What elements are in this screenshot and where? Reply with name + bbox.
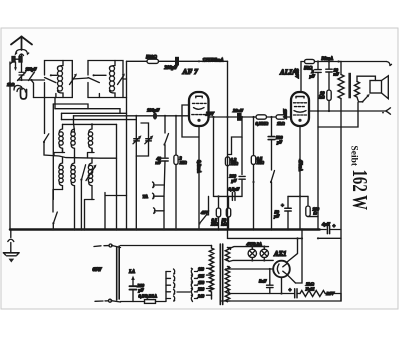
tuned circuit box 1: [45, 61, 73, 98]
SECTION: boxes: [45, 61, 127, 98]
bus junction dots: [52, 228, 54, 230]
wire long vertical x126.5: [126, 61, 128, 116]
svg-text:5nF: 5nF: [259, 279, 267, 284]
wire lamp rail top: [231, 247, 269, 248]
svg-text:AF 7: AF 7: [182, 67, 199, 76]
wire cathode bias tap: [288, 195, 308, 197]
wire top rail left segment: [127, 60, 147, 62]
trimmer arrow box2: [118, 75, 125, 85]
wire y124.4: [63, 123, 117, 125]
SECTION: midline: [74, 108, 190, 230]
svg-text:µF: µF: [309, 73, 316, 78]
transformer core: [348, 73, 351, 99]
wire under boxes y97.5: [34, 97, 73, 99]
wire 2µF branch x318: [317, 62, 319, 70]
variable core arrow coil F: [86, 166, 96, 181]
svg-text:0,3MΩ: 0,3MΩ: [256, 121, 269, 126]
wire mains bottom line: [121, 301, 145, 303]
wire y108.7: [54, 98, 56, 109]
field coil resistor: [300, 291, 325, 297]
coil B upper: [71, 129, 74, 133]
wire coil F bottom: [85, 200, 95, 230]
svg-text:180V: 180V: [294, 69, 299, 80]
tube ALL4 envelope: [291, 92, 309, 126]
svg-text:µF: µF: [273, 214, 280, 219]
resistor 50Ω: [305, 59, 315, 63]
svg-text:AZ1: AZ1: [273, 250, 286, 258]
svg-text:47mA: 47mA: [297, 159, 302, 172]
switch: [164, 134, 168, 146]
coil D lower: [59, 158, 62, 167]
tube AF7 envelope: [189, 92, 209, 126]
resistor 10kΩ: [327, 90, 331, 101]
trimmer capacitor 1: [21, 62, 23, 72]
wire top rail right segment: [300, 62, 302, 93]
wire rectifier vertical x302: [296, 230, 303, 284]
right hooks and tap labels: [191, 268, 192, 274]
left long vertical: [9, 62, 11, 230]
terminal hook right y111: [386, 108, 391, 114]
svg-text:MΩ: MΩ: [210, 222, 219, 227]
SECTION: toprail: [127, 56, 392, 239]
resistor 100Ω cathode: [307, 196, 309, 206]
transformer core: [219, 244, 221, 305]
transformer primary winding: [338, 75, 344, 99]
wire 10nF branch x329: [328, 62, 330, 69]
svg-text:kΩ: kΩ: [319, 95, 325, 100]
wire coil A bottom: [54, 149, 65, 156]
plug connector: [12, 57, 15, 63]
wire right vertical bottom: [222, 294, 342, 302]
svg-text:200pF: 200pF: [164, 66, 179, 71]
wire B+ feed y238 right: [318, 237, 341, 239]
wire lamp rail bottom: [229, 260, 273, 261]
wire B+ feed y238 left: [228, 237, 303, 239]
transformer primary lead: [337, 60, 339, 62]
capacitor 100µF blob: [153, 112, 157, 119]
svg-text:162 W: 162 W: [348, 170, 372, 211]
wire B+ long vertical: [227, 61, 229, 238]
svg-text:+: +: [281, 204, 284, 209]
resistor lower B: [228, 196, 230, 208]
wire stub left mid: [105, 193, 127, 230]
switch: [271, 171, 275, 183]
wire ALL4 cathode down: [299, 126, 301, 230]
coil E lower: [71, 157, 74, 167]
antenna coupling curls: [16, 50, 21, 55]
svg-text:nF: nF: [334, 72, 339, 77]
speaker: [370, 81, 382, 94]
svg-text:150: 150: [198, 280, 204, 285]
capacitor 200pF: [175, 57, 179, 66]
svg-text:pF: pF: [231, 178, 237, 183]
mains switch link: [116, 247, 118, 300]
svg-text:TA: TA: [143, 194, 149, 199]
capacitor 200pF LA: [130, 285, 137, 287]
svg-text:125: 125: [198, 273, 204, 278]
SECTION: all4: [273, 69, 320, 230]
wire anode bottom: [287, 275, 295, 283]
svg-text:4µF: 4µF: [321, 222, 330, 227]
svg-text:+: +: [289, 289, 292, 294]
switch contacts: [111, 244, 113, 246]
SECTION: af7: [182, 92, 215, 230]
svg-text:0,2mA: 0,2mA: [196, 160, 201, 173]
wire heater HT line: [230, 293, 294, 295]
coil C upper: [89, 124, 92, 132]
wire step x358 to x318: [318, 103, 358, 128]
wire anode top: [287, 238, 298, 262]
chassis bus: [10, 228, 320, 231]
node dots on y117: [226, 116, 228, 118]
wire mains top line: [121, 245, 212, 247]
svg-text:ALL: ALL: [279, 69, 294, 77]
wire coil C bottom: [88, 149, 95, 158]
wire AF7 cathode bracket: [182, 105, 199, 137]
wire AF7 bottom lead down to bus: [198, 126, 200, 230]
capacitor 50µF electrolytic: [287, 196, 289, 208]
node AF7 top: [198, 60, 200, 62]
selector bridge: [177, 291, 190, 293]
resistor 0,2MΩ on B+ vertical: [225, 157, 229, 166]
trimmer cap A: [134, 138, 140, 140]
SECTION: rightside: [228, 222, 342, 284]
secondary winding upper: [225, 248, 229, 261]
wire AF7 anode long vertical x213.5: [213, 117, 215, 196]
wire main tuning line: [18, 79, 45, 81]
node dot: [20, 79, 22, 81]
rectifier AZ1: [273, 261, 290, 278]
svg-text:1kΩ: 1kΩ: [7, 82, 15, 87]
svg-text:LA: LA: [128, 270, 135, 275]
wire voice bottom: [357, 97, 363, 102]
wire box2 to rail start: [123, 78, 127, 80]
speaker voice winding: [355, 82, 360, 98]
wire filament lead lower: [226, 268, 274, 270]
SECTION: az1: [222, 237, 342, 301]
svg-text:1kΩ: 1kΩ: [277, 121, 285, 126]
capacitor 500pF: [268, 136, 275, 138]
svg-text:150V: 150V: [283, 109, 288, 120]
svg-text:30mA: 30mA: [321, 57, 334, 62]
wire grid branch x271.5: [271, 117, 273, 136]
svg-text:100µF: 100µF: [147, 108, 160, 113]
wire screen branch x242: [228, 117, 242, 155]
voltage selector left contacts: [165, 272, 167, 302]
svg-text:Feld: Feld: [306, 286, 315, 291]
svg-text:240: 240: [197, 293, 204, 298]
wire switch branch x165: [164, 116, 166, 133]
svg-text:4V/0,3A: 4V/0,3A: [246, 242, 262, 247]
resistor 0,3MΩ: [256, 115, 267, 119]
jack hooks TA: [154, 184, 165, 186]
wire bus extension to 4µF: [320, 229, 327, 231]
wire y104: [53, 104, 88, 109]
wire to bottom line: [32, 81, 34, 98]
resistor 0,5MΩ: [253, 117, 255, 156]
svg-text:nF: nF: [156, 160, 161, 165]
wire return line y111: [309, 110, 386, 112]
capacitor 10nF: [326, 68, 332, 70]
svg-text:20nF: 20nF: [232, 108, 243, 113]
wire coil D bottom to switch: [53, 189, 63, 191]
antenna coil curls: [14, 85, 22, 90]
SECTION: outtrafo: [309, 60, 391, 301]
svg-text:65W: 65W: [93, 268, 103, 273]
svg-text:220: 220: [197, 287, 204, 292]
wire y119.6: [62, 119, 137, 121]
SECTION: antenna: [7, 37, 45, 230]
switch G: [81, 165, 85, 180]
svg-text:MΩ: MΩ: [179, 160, 188, 165]
LA arrow: [131, 276, 135, 281]
svg-text:0,5/0,5/1A: 0,5/0,5/1A: [139, 293, 158, 298]
tuned circuit box 2: [88, 61, 123, 98]
lamp 2: [263, 247, 265, 261]
switch: [53, 212, 57, 224]
mains plug top: [94, 245, 101, 248]
svg-text:pF: pF: [138, 287, 144, 292]
wire voice top: [357, 76, 375, 81]
terminal hook top right: [387, 62, 391, 66]
svg-text:12V/35mA: 12V/35mA: [203, 59, 224, 64]
ALL4 internals: [296, 96, 304, 98]
svg-text:MΩ: MΩ: [256, 160, 265, 165]
trimmer cap B: [146, 138, 152, 140]
antenna symbol: [11, 37, 32, 51]
wire y113.3: [62, 112, 127, 114]
switch arm box1: [50, 74, 52, 76]
SECTION: coils: [34, 61, 137, 229]
resistor 2MΩ branch: [175, 116, 177, 155]
power transformer primary: [209, 246, 213, 300]
node dots on AVC line: [135, 115, 137, 117]
SECTION: powertrafo: [166, 244, 231, 305]
ground pigtail: [10, 230, 12, 238]
wire AVC line y116: [74, 115, 190, 117]
coil L2: [110, 61, 116, 69]
wire coupling line y117: [209, 116, 237, 118]
secondary winding lower: [225, 267, 229, 302]
trimmer arrow box1: [70, 75, 77, 85]
coil A upper: [59, 124, 62, 132]
wire plug to left vertical: [10, 62, 13, 64]
resistor 1kΩ: [276, 115, 286, 119]
wire band switch branch x44.5: [44, 98, 46, 134]
SECTION: mains: [93, 244, 212, 303]
svg-text:Seibt: Seibt: [349, 146, 360, 167]
switch: [44, 134, 49, 142]
resistor lower A: [218, 196, 220, 208]
coil cup: [21, 90, 27, 100]
AF7 internals: [196, 95, 202, 97]
coil F lower: [89, 158, 92, 167]
SECTION: bus: [4, 228, 320, 262]
coil L1: [58, 61, 64, 69]
svg-text:110: 110: [198, 267, 204, 272]
svg-text:100pF: 100pF: [26, 67, 37, 72]
svg-text:+: +: [333, 225, 336, 230]
wire between boxes: [72, 78, 88, 79]
svg-text:0,5µF: 0,5µF: [229, 187, 240, 192]
wire sloped line to coils: [44, 142, 117, 158]
wire AVC corner down to coil B: [74, 116, 75, 132]
ground symbol: [4, 252, 20, 254]
svg-text:pF: pF: [276, 139, 282, 144]
trimmer arrow 2: [29, 72, 35, 81]
down arrow: [15, 62, 17, 69]
trimmer box: [136, 116, 148, 156]
SECTION: middleblock: [198, 108, 291, 230]
lamp 1: [251, 247, 253, 261]
svg-text:MΩ: MΩ: [230, 161, 239, 166]
wire cathode down: [281, 277, 283, 293]
mains plug bottom: [95, 300, 103, 302]
SECTION: title: [348, 146, 372, 211]
svg-text:kΩ: kΩ: [221, 222, 227, 227]
fuse: [145, 300, 156, 304]
switch arm box2: [93, 74, 95, 76]
